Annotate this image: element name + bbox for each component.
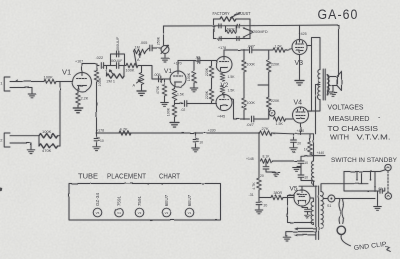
chart tube circle V4	[115, 208, 124, 217]
power switch contacts	[370, 172, 376, 188]
switch box left	[343, 172, 345, 185]
wire switch to ground	[375, 187, 378, 206]
resistor 1.5K V3 grid stopper	[273, 48, 292, 53]
junction dot rail a	[96, 132, 98, 134]
resistor 2.2K V1 cathode	[76, 89, 81, 105]
arrow 200MFD	[243, 27, 253, 38]
heater line a	[294, 227, 316, 230]
resistor 100K divider upper	[242, 50, 247, 72]
capacitor .047 to V3	[250, 47, 273, 53]
tube V2 (bottom half)	[216, 95, 232, 111]
wire bias row	[259, 197, 271, 199]
heater line CT	[286, 232, 316, 236]
wire choke bottom	[301, 177, 314, 186]
wire bass node down	[141, 66, 143, 73]
resistor 220K bias lower	[266, 72, 271, 119]
ground 470K	[161, 96, 169, 106]
ground heater	[283, 236, 291, 241]
junction dot rail c	[258, 132, 260, 134]
switch box top	[344, 171, 380, 173]
wire jack1 to grid	[16, 81, 45, 83]
test point P	[269, 110, 275, 116]
power transformer secondary	[311, 202, 313, 225]
capacitor heater bypass	[302, 206, 310, 212]
capacitor 10 filter e	[298, 163, 304, 177]
fuse terminal	[380, 164, 391, 171]
power cord twisted pair	[339, 199, 343, 224]
jack J2	[4, 133, 39, 147]
node top coupling	[224, 49, 249, 51]
wire V5 to secondary	[310, 198, 313, 202]
factory adjust box right	[249, 19, 251, 39]
capacitor .022 C1	[97, 63, 111, 69]
resistor 8.1K dropper	[261, 159, 300, 164]
tube V5 (GZ-34)	[294, 190, 310, 206]
wire divider tie	[258, 84, 269, 86]
standby switch contacts	[356, 172, 362, 185]
ground filter a	[93, 140, 101, 150]
capacitor feedback upper right	[237, 24, 239, 28]
B+ rail wire	[97, 132, 260, 134]
tube V1 (6EU7 b)	[170, 71, 186, 87]
junction dot top	[243, 49, 245, 51]
resistor 4.7K bias dropper	[257, 161, 262, 198]
pot 1M bass	[137, 73, 144, 85]
factory adjust box bottom	[214, 38, 251, 40]
tube V1 (6EU7 a)	[73, 73, 92, 92]
wire rectifier node	[313, 134, 315, 156]
filter choke	[312, 156, 314, 185]
power transformer core	[316, 186, 319, 240]
capacitor 20 filter c	[291, 134, 297, 143]
chart tube circle V5	[93, 208, 102, 217]
capacitor feedback lower right	[237, 36, 239, 40]
capacitor 10 filter b	[193, 133, 199, 141]
ground bias b	[255, 205, 263, 214]
ground jack J1 sleeve	[28, 88, 36, 98]
wire V5 plate top	[299, 186, 317, 190]
pot 250K volume circle	[161, 45, 169, 53]
resistor 220K upper divider	[209, 61, 214, 79]
resistor 100K ch2	[39, 133, 60, 138]
wire V5 heater loop	[288, 196, 314, 223]
AC terminal	[385, 193, 391, 199]
resistor 1.5K V4 grid stopper	[274, 117, 293, 122]
wire to V1 grid	[56, 81, 73, 83]
ground V1 cathode	[73, 105, 83, 113]
wire feedback rail	[164, 25, 339, 26]
AC plug dashed link	[387, 171, 389, 193]
capacitor .005 coupling	[159, 76, 161, 82]
capacitor 300UUF top	[117, 51, 119, 57]
output transformer secondary	[327, 75, 329, 95]
wire V2a plate up	[223, 50, 225, 57]
input jack J1	[4, 77, 32, 91]
resistor 470K ch2	[39, 136, 60, 149]
edge smudge	[0, 188, 2, 192]
resistor 380R rectifier	[271, 195, 294, 200]
wire pilot to switch	[335, 198, 375, 200]
ground filter c	[290, 142, 298, 151]
resistor 100K V2 grid leak	[192, 61, 197, 84]
resistor 680K feedback	[226, 26, 237, 34]
pot 2M tone	[107, 66, 125, 79]
ground bass pot	[137, 85, 146, 96]
resistor 1.5K V2 cathode a	[220, 73, 225, 81]
capacitor .047 to V4	[252, 116, 269, 122]
tube V3 (7591)	[292, 40, 307, 55]
wire V3 screen to OT	[307, 38, 320, 70]
ground filter d stub	[293, 167, 301, 172]
wire switch lower row	[344, 184, 376, 191]
wire secondary bottom	[312, 224, 314, 225]
pot factory adjust	[214, 13, 251, 22]
factory adjust box left	[213, 19, 215, 39]
junction dot rail b	[195, 132, 197, 134]
capacitor 10 filter d	[298, 156, 304, 163]
wire V4 cathode down	[300, 126, 302, 135]
wire cap column top	[301, 155, 314, 158]
junction dot rectifier node	[313, 155, 315, 157]
ground clip ring	[337, 226, 345, 234]
capacitor .005 treble	[146, 45, 161, 51]
capacitor 300UUF bottom	[111, 63, 127, 69]
junction dot bottom	[243, 118, 245, 120]
wire primary to switch	[321, 184, 344, 192]
wire OT centre tap screens	[316, 85, 321, 134]
resistor 1.5K V1b cathode	[172, 85, 177, 101]
ground 100K grid leak	[190, 83, 198, 92]
ground bias filter	[272, 173, 280, 177]
wire feedback down to speaker	[338, 25, 340, 77]
wire tone node	[111, 54, 125, 66]
resistor 470K grid leak	[162, 79, 167, 96]
wire supply dropper column	[258, 133, 260, 161]
ground jack J2	[27, 143, 35, 154]
wire V2b plate out	[231, 99, 250, 120]
ground tail	[170, 117, 179, 127]
capacitor 20 bias b	[256, 198, 262, 205]
capacitor 20 bias filter	[263, 161, 275, 172]
resistor 100K divider lower	[242, 72, 247, 119]
tube V2 (top half)	[216, 57, 232, 73]
wire V1 plate up	[82, 64, 97, 73]
ground filter b	[192, 141, 200, 152]
wire V1b plate	[178, 61, 217, 72]
node channel mix vertical wire	[59, 82, 61, 147]
resistor 100K V1 plate load	[94, 64, 99, 134]
wire V3 plate to feedback rail	[299, 25, 301, 39]
wire stub right of node	[314, 155, 326, 157]
capacitor .02 interstage	[198, 58, 200, 64]
ground switch	[374, 207, 382, 211]
capacitor feedback upper left	[219, 24, 221, 28]
tube V4 (7591)	[293, 107, 309, 126]
resistor 1.5K V2 cathode b	[220, 86, 225, 96]
resistor 220K lower divider	[209, 78, 214, 104]
ground V3 cathode	[295, 55, 304, 86]
tube chart box	[69, 184, 221, 221]
chart tube circle V3	[135, 208, 144, 217]
capacitor feedback lower left	[219, 36, 221, 40]
resistor 1K screen feed	[308, 134, 314, 156]
resistor 100K tail	[172, 101, 177, 118]
ground heater bypass	[304, 212, 310, 219]
chart tube circle V1	[185, 208, 194, 217]
capacitor 10 filter a	[94, 133, 100, 140]
resistor 4.7K rail	[119, 131, 131, 136]
output transformer core	[323, 69, 325, 100]
speaker	[327, 72, 341, 96]
capacitor .02 line filter	[0, 0, 1, 1]
capacitor .02 coupling to V2 grid	[175, 101, 217, 107]
ground volume pot	[161, 54, 169, 63]
pot 1M treble	[134, 49, 146, 65]
ground speaker	[329, 86, 337, 97]
wire volume to feedback line	[163, 26, 165, 46]
heater line b	[294, 233, 316, 236]
wire switch row	[344, 183, 368, 185]
wire screens bus	[308, 46, 311, 112]
ground clip lead	[341, 235, 350, 246]
resistor 100K tone	[126, 63, 142, 68]
output transformer primary	[318, 70, 320, 100]
wire V4 plate to OT	[308, 100, 321, 112]
power transformer primary	[321, 192, 323, 229]
ground clip tip	[386, 247, 391, 252]
resistor 27K rail	[260, 131, 314, 136]
resistor 220K bias upper	[266, 50, 271, 72]
chart tube circle V2	[162, 208, 171, 217]
wire tone out to V1b grid	[142, 66, 171, 80]
pilot lamp S1	[324, 195, 335, 202]
resistor 100K R1	[44, 79, 56, 84]
